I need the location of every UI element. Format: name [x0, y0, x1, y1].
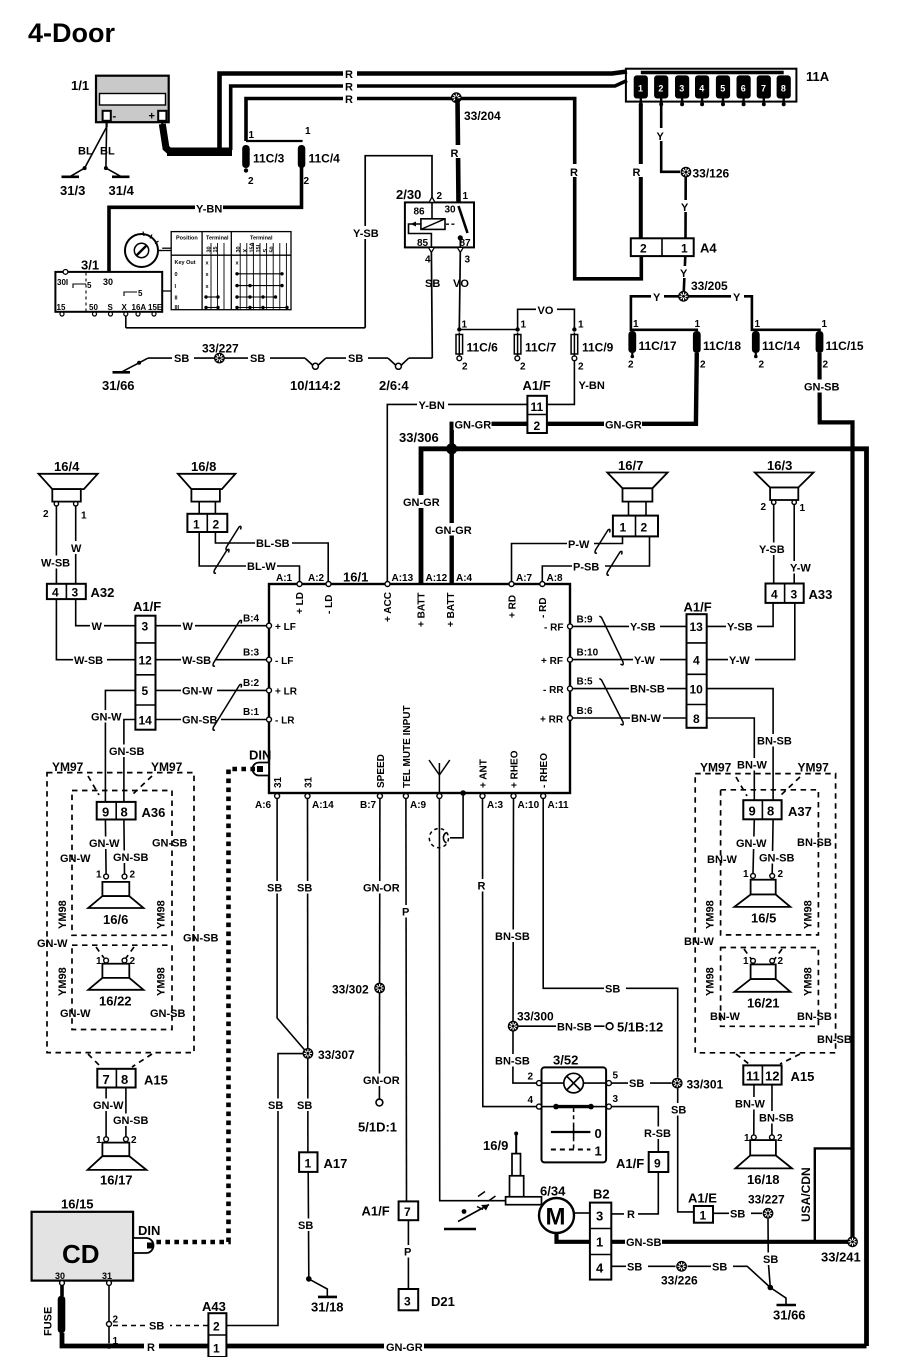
ground 31/18 — [306, 1276, 344, 1314]
svg-text:16/21: 16/21 — [747, 996, 780, 1011]
splice slash B:4/B:3 — [213, 620, 242, 666]
svg-text:SB: SB — [250, 353, 265, 365]
svg-text:16/3: 16/3 — [767, 458, 792, 473]
antenna symbol inside radio — [429, 760, 450, 793]
wire SB radio A:14 down through 33/307 to A17 — [296, 799, 318, 1153]
wire BN-SB radio A:10 to 33/300 and 3/52 pin2 — [494, 799, 537, 1084]
terminal 2/6:4 — [379, 358, 409, 393]
svg-text:SB: SB — [149, 1321, 164, 1333]
connector D21 pin 3 — [399, 1289, 455, 1310]
svg-text:+ BATT: + BATT — [417, 592, 428, 627]
svg-text:13: 13 — [690, 620, 704, 634]
connector A15 left (7 8) — [97, 1069, 168, 1088]
wire Y-W radio B:10 to A1/F 4 — [573, 654, 687, 668]
speaker 16/7 — [607, 458, 667, 516]
svg-text:P-SB: P-SB — [573, 562, 599, 574]
svg-text:B:9: B:9 — [577, 615, 594, 626]
junction 33/300 — [508, 1010, 554, 1032]
svg-text:BN-W: BN-W — [710, 1011, 741, 1023]
wire antenna lead radio to antenna base — [439, 799, 505, 1201]
svg-text:BN-SB: BN-SB — [495, 931, 530, 943]
svg-text:Terminal: Terminal — [206, 236, 229, 242]
svg-text:GN-GR: GN-GR — [386, 1342, 423, 1354]
fuse 11C/6 — [456, 320, 498, 373]
funnel dashes to A15 right — [736, 1054, 800, 1064]
connector A1/E pin 1 — [688, 1191, 717, 1223]
fuse 5 (11A) — [716, 76, 729, 106]
svg-text:1: 1 — [213, 1342, 220, 1356]
svg-text:11C/7: 11C/7 — [525, 341, 557, 355]
svg-text:R: R — [345, 82, 353, 94]
speaker 16/8 — [178, 459, 236, 514]
wire Y-BN fuse 11C/4 to ignition switch 30 — [109, 167, 302, 272]
speaker 16/17 — [88, 1135, 147, 1188]
svg-text:1: 1 — [578, 320, 584, 331]
svg-text:SB: SB — [730, 1209, 745, 1221]
wire R-SB 3/52 pin3 to A1/F 9 — [611, 1107, 675, 1152]
wire BL battery negative to grounds — [85, 127, 107, 168]
svg-text:SB: SB — [174, 353, 189, 365]
svg-text:86: 86 — [414, 207, 426, 218]
svg-text:GN-W: GN-W — [93, 1100, 124, 1112]
wire VO bridge 11C/7 to 11C/9 — [518, 303, 575, 330]
svg-text:GN-SB: GN-SB — [183, 933, 219, 945]
svg-text:1: 1 — [96, 956, 102, 967]
svg-text:2: 2 — [534, 419, 541, 433]
ground 31/3 — [60, 166, 87, 198]
svg-text:5: 5 — [142, 684, 149, 698]
svg-text:2: 2 — [658, 84, 663, 94]
svg-text:B:10: B:10 — [577, 648, 599, 659]
svg-text:11C/15: 11C/15 — [826, 339, 864, 353]
svg-text:8: 8 — [767, 804, 774, 819]
junction 33/204 — [451, 92, 501, 123]
svg-text:SB: SB — [605, 984, 620, 996]
svg-text:33/227: 33/227 — [202, 342, 239, 356]
svg-text:SPEED: SPEED — [376, 754, 387, 788]
label R bottom rail — [144, 1340, 159, 1355]
svg-text:2: 2 — [130, 870, 136, 881]
wire Y-SB relay pin2 to ignition switch X terminal — [352, 156, 432, 328]
wire X terminal to Y-SB riser — [125, 316, 127, 328]
svg-text:SB: SB — [763, 1254, 778, 1266]
svg-text:VO: VO — [453, 278, 469, 290]
svg-text:BL: BL — [78, 146, 93, 158]
svg-text:1: 1 — [96, 870, 102, 881]
svg-text:R: R — [633, 167, 641, 179]
wire W A32 to A1/F pin3 — [76, 599, 136, 633]
svg-text:DIN: DIN — [138, 1223, 160, 1238]
svg-text:A:3: A:3 — [487, 800, 504, 811]
svg-text:85: 85 — [417, 238, 429, 249]
svg-text:X: X — [243, 249, 249, 253]
svg-text:16/7: 16/7 — [618, 458, 643, 473]
svg-text:A1/E: A1/E — [688, 1191, 717, 1206]
svg-text:10/114:2: 10/114:2 — [290, 378, 341, 393]
harness box YM97 right — [695, 774, 835, 1053]
svg-text:A33: A33 — [809, 587, 833, 602]
harness box YM98 left upper — [72, 776, 172, 935]
wire R2 (battery to fuse box 11A) — [231, 80, 627, 151]
junction 33/307 — [303, 1048, 356, 1062]
svg-text:11C/9: 11C/9 — [582, 341, 614, 355]
svg-text:YM98: YM98 — [156, 967, 168, 996]
svg-text:16/9: 16/9 — [483, 1138, 508, 1153]
connector A32 — [47, 584, 114, 600]
svg-text:1: 1 — [800, 503, 806, 514]
svg-text:9: 9 — [749, 804, 756, 819]
wire P A1/F 7 to D21 — [401, 1220, 416, 1289]
svg-text:GN-SB: GN-SB — [804, 382, 840, 394]
svg-text:16/5: 16/5 — [751, 911, 776, 926]
svg-text:2: 2 — [248, 176, 254, 187]
svg-text:A37: A37 — [788, 804, 812, 819]
speaker 16/6 — [88, 870, 143, 928]
svg-text:YM97: YM97 — [52, 760, 84, 774]
antenna 16/9 — [483, 1132, 542, 1205]
connector A4 — [631, 238, 718, 256]
fuse 11C/15 — [816, 331, 864, 371]
svg-text:-: - — [113, 111, 117, 123]
wire Y-W A1/F 4 to A33 pin3 — [707, 603, 795, 667]
svg-text:7: 7 — [404, 1205, 411, 1219]
svg-text:- LF: - LF — [275, 656, 293, 667]
svg-text:33/204: 33/204 — [464, 109, 501, 123]
svg-text:2: 2 — [528, 1072, 534, 1083]
svg-text:B:2: B:2 — [243, 678, 260, 689]
fuse 7 (11A) — [757, 76, 770, 106]
splice slash B:9/B:10 — [600, 616, 623, 665]
splice slash P-W — [595, 529, 610, 553]
wire W-SB 16/4 pin2 to A32 pin4 — [40, 506, 73, 584]
svg-text:GN-SB: GN-SB — [150, 1008, 186, 1020]
radio top pins — [276, 573, 563, 627]
svg-text:2: 2 — [304, 176, 310, 187]
svg-text:W-SB: W-SB — [182, 655, 211, 667]
svg-text:SB: SB — [268, 1100, 283, 1112]
svg-text:3: 3 — [679, 84, 684, 94]
svg-text:7: 7 — [103, 1072, 110, 1087]
wire SB radio A:11 to 33/301 — [543, 799, 678, 1078]
svg-text:Y-W: Y-W — [790, 563, 811, 575]
wire battery positive cable — [162, 124, 232, 152]
svg-text:GN-W: GN-W — [182, 686, 213, 698]
svg-text:BN-SB: BN-SB — [759, 1113, 794, 1125]
svg-text:16/4: 16/4 — [54, 459, 80, 474]
svg-text:R: R — [478, 881, 486, 893]
motor 6/34 — [539, 1184, 574, 1234]
svg-text:+: + — [149, 111, 155, 123]
svg-text:SB: SB — [348, 353, 363, 365]
svg-text:31/66: 31/66 — [102, 378, 135, 393]
svg-text:W-SB: W-SB — [74, 655, 103, 667]
svg-text:A:1: A:1 — [276, 573, 293, 584]
svg-text:+ BATT: + BATT — [446, 592, 457, 627]
svg-text:Y-SB: Y-SB — [353, 228, 379, 240]
svg-text:4: 4 — [425, 255, 431, 266]
junction 33/227 (lower right) — [748, 1193, 785, 1219]
svg-text:A:4: A:4 — [456, 573, 473, 584]
svg-text:3/1: 3/1 — [81, 258, 99, 273]
svg-text:1: 1 — [596, 1235, 603, 1250]
svg-text:2: 2 — [641, 521, 648, 535]
wire W 16/4 pin1 to A32 pin3 — [70, 506, 83, 584]
svg-text:GN-GR: GN-GR — [605, 420, 642, 432]
svg-text:D21: D21 — [431, 1294, 455, 1309]
wire BN-SB A1/F 10 down to A37 pin8 — [707, 689, 794, 801]
svg-text:16A: 16A — [132, 303, 147, 312]
speaker 16/4 — [39, 459, 98, 522]
svg-text:1: 1 — [681, 242, 688, 256]
svg-text:A:6: A:6 — [255, 800, 272, 811]
svg-text:5: 5 — [720, 84, 725, 94]
svg-text:GN-W: GN-W — [60, 853, 91, 865]
speaker 16/21 — [734, 956, 790, 1011]
wire SB chain continues — [326, 351, 388, 366]
speaker 16/18 — [735, 1133, 792, 1187]
svg-text:33/306: 33/306 — [399, 430, 439, 445]
wire SB B2 pin4 to 33/226 — [611, 1260, 675, 1274]
wire Y A4 pin1 to junction 33/205 — [679, 256, 691, 293]
wire Y-BN 11C/9 to A1/F pin 11 — [547, 361, 605, 405]
svg-text:31: 31 — [102, 1271, 112, 1281]
svg-text:4: 4 — [52, 586, 59, 600]
svg-text:1: 1 — [700, 1209, 707, 1223]
wire GN-W A37 pin9 to 16/5 pin1 — [735, 819, 767, 873]
svg-text:2: 2 — [213, 518, 220, 532]
svg-text:GN-W: GN-W — [89, 838, 120, 850]
harness box YM97 left — [47, 773, 194, 1053]
svg-text:R-SB: R-SB — [644, 1128, 671, 1140]
wire BL-SB 16/8 pin2 to radio A:2 — [215, 532, 328, 582]
wire SB 33/226 to ground point — [688, 1260, 771, 1288]
svg-text:0: 0 — [175, 272, 178, 278]
svg-text:3: 3 — [613, 1094, 619, 1105]
svg-text:1/1: 1/1 — [71, 78, 89, 93]
svg-text:- LR: - LR — [275, 716, 295, 727]
svg-text:16/18: 16/18 — [747, 1172, 780, 1187]
svg-text:B:3: B:3 — [243, 648, 260, 659]
svg-text:GN-SB: GN-SB — [109, 746, 145, 758]
svg-text:- RHEO: - RHEO — [539, 753, 550, 788]
junction 33/205 — [678, 279, 728, 302]
svg-text:+ ACC: + ACC — [383, 592, 394, 622]
ground 31/66 (lower right) — [768, 1285, 806, 1323]
junction 33/302 — [332, 983, 385, 997]
svg-text:SB: SB — [297, 1100, 312, 1112]
wire GN-W A15 to 16/17 pin1 — [92, 1088, 124, 1137]
svg-text:FUSE: FUSE — [43, 1307, 55, 1336]
svg-text:BN-W: BN-W — [707, 854, 738, 866]
wire SB 33/227 down to ground 31/66 — [762, 1219, 784, 1288]
wire GN-SB 11C/15 down right rail to 33/241 — [803, 353, 853, 1242]
svg-text:Y-W: Y-W — [634, 655, 655, 667]
DIN connector on radio — [249, 748, 271, 776]
wire Y fuse2 to junction 33/126 — [655, 104, 680, 172]
svg-text:P: P — [402, 907, 409, 919]
svg-text:S: S — [108, 303, 114, 312]
svg-text:- LD: - LD — [324, 595, 335, 614]
wire BL-W 16/8 pin1 to radio A:1 — [199, 532, 299, 582]
wire W-SB A1/F pin12 to radio B:3 — [156, 654, 267, 668]
svg-text:30: 30 — [103, 277, 113, 287]
svg-text:A15: A15 — [791, 1069, 815, 1084]
wire Y-SB radio B:9 to A1/F 13 — [573, 620, 687, 634]
wire BN-W radio B:6 to A1/F 8 — [573, 712, 687, 726]
svg-text:M: M — [546, 1204, 566, 1231]
svg-text:Y-SB: Y-SB — [727, 622, 753, 634]
svg-text:GN-W: GN-W — [60, 1008, 91, 1020]
svg-text:3: 3 — [72, 586, 79, 600]
svg-text:YM98: YM98 — [156, 900, 168, 929]
junction 33/126 — [681, 167, 730, 181]
svg-text:GN-W: GN-W — [91, 712, 122, 724]
svg-text:1: 1 — [96, 1135, 102, 1146]
svg-text:4: 4 — [771, 588, 778, 602]
wire Y right branch to fuses 11C/14 11C/15 — [689, 290, 828, 331]
wire R radio A:3 down to 3/52 pin4 — [475, 799, 537, 1107]
svg-text:II: II — [175, 296, 179, 302]
svg-text:BL-SB: BL-SB — [256, 538, 290, 550]
antenna trim dashes — [477, 1192, 496, 1210]
svg-text:A1/F: A1/F — [133, 599, 161, 614]
wire GN-SB A37 pin8 to 16/5 pin2 — [758, 819, 795, 873]
svg-text:15A: 15A — [250, 242, 256, 252]
svg-text:CD: CD — [62, 1239, 100, 1269]
svg-text:2: 2 — [761, 502, 767, 513]
wire GN-SB A1/F pin14 down to A36 pin8 — [108, 720, 145, 802]
variant box USA/CDN — [799, 1148, 853, 1241]
fuse (CD supply) — [43, 1281, 66, 1336]
svg-text:15E: 15E — [148, 303, 163, 312]
svg-text:33/307: 33/307 — [318, 1048, 355, 1062]
wire motor to B2 pin3 row — [574, 1212, 590, 1214]
svg-text:YM97: YM97 — [700, 761, 732, 775]
svg-text:2: 2 — [628, 360, 634, 371]
svg-text:5/1D:1: 5/1D:1 — [358, 1120, 397, 1135]
svg-text:YM98: YM98 — [57, 967, 69, 996]
svg-text:31/4: 31/4 — [109, 183, 135, 198]
svg-text:11: 11 — [531, 400, 544, 414]
svg-text:BN-SB: BN-SB — [757, 736, 792, 748]
svg-text:GN-OR: GN-OR — [363, 1075, 400, 1087]
harness box YM98 right upper — [721, 777, 819, 935]
svg-text:GN-GR: GN-GR — [403, 497, 440, 509]
svg-text:YM98: YM98 — [57, 900, 69, 929]
radio unit 16/1 — [269, 570, 570, 794]
svg-text:11C/3: 11C/3 — [253, 152, 285, 166]
wire Y 33/126 to A4 pin 1 — [680, 177, 692, 238]
svg-text:2: 2 — [43, 509, 49, 520]
CD changer 16/15 — [32, 1197, 134, 1282]
svg-text:33/226: 33/226 — [661, 1274, 698, 1288]
svg-text:A36: A36 — [142, 805, 166, 820]
junction 33/227 (ground chain) — [202, 342, 239, 364]
svg-text:B:5: B:5 — [577, 677, 594, 688]
coax shield stub and dashed screen circle — [429, 793, 463, 848]
svg-text:10: 10 — [690, 683, 704, 697]
svg-text:GN-W: GN-W — [736, 838, 767, 850]
svg-text:2/6:4: 2/6:4 — [379, 378, 409, 393]
wire GN-W A36 pin9 to speaker 16/6 pin1 — [88, 820, 120, 875]
svg-text:BN-W: BN-W — [684, 936, 715, 948]
connector A43 — [202, 1299, 226, 1357]
svg-text:3/52: 3/52 — [553, 1053, 578, 1068]
wire Y-W 16/3 pin1 to A33 pin3 — [789, 505, 816, 584]
svg-text:R: R — [451, 148, 459, 160]
speaker 16/5 — [734, 869, 790, 926]
svg-text:A1/F: A1/F — [523, 378, 551, 393]
svg-text:B:1: B:1 — [243, 707, 260, 718]
splice slash BL-W — [214, 549, 229, 573]
terminal 5/1D:1 — [358, 1099, 397, 1134]
fuse 11C/14 — [752, 331, 800, 371]
ignition position table — [171, 232, 291, 311]
svg-text:BN-SB: BN-SB — [557, 1022, 592, 1034]
svg-text:SB: SB — [627, 1262, 642, 1274]
funnel dashes to A15 left — [88, 1054, 152, 1067]
connector A1/F pins 13 4 10 8 — [684, 600, 712, 728]
fuse 11C/17 — [628, 331, 677, 371]
wire R fuse1 to connector A4 pin 2 — [631, 104, 644, 238]
wire BN-W A1/F 8 down to A37 pin9 — [707, 718, 769, 800]
svg-text:Y-BN: Y-BN — [579, 380, 605, 392]
wire GN-GR 11C/18 to A1/F pin 2 — [547, 353, 697, 432]
svg-text:BN-SB: BN-SB — [630, 684, 665, 696]
svg-text:W: W — [92, 621, 103, 633]
svg-text:4: 4 — [528, 1095, 534, 1106]
wire Y-BN to A1/F pin 11 from radio ACC riser — [387, 398, 527, 584]
svg-text:BN-SB: BN-SB — [797, 1011, 832, 1023]
svg-text:50: 50 — [89, 303, 98, 312]
wire VO relay pin3 to fuse 11C/6 — [453, 253, 469, 330]
wire BN-SB 33/300 to terminal 5/1B:12 — [519, 1020, 605, 1034]
wire GN-SB A36 pin8 to speaker 16/6 pin2 — [112, 820, 149, 875]
svg-text:33/227: 33/227 — [748, 1193, 785, 1207]
svg-text:14: 14 — [139, 714, 153, 728]
radio bottom pins — [255, 705, 569, 811]
relay 2/30 — [396, 187, 474, 266]
svg-text:B2: B2 — [593, 1187, 610, 1202]
wire SB chain to relay pin 4 — [409, 357, 433, 359]
svg-text:2: 2 — [700, 360, 706, 371]
junction 33/241 — [821, 1236, 861, 1264]
svg-text:4-Door: 4-Door — [28, 18, 115, 48]
svg-text:8: 8 — [781, 84, 786, 94]
connector A1/F pin 7 — [362, 1201, 419, 1220]
connector B2 — [590, 1187, 611, 1280]
svg-text:Y-W: Y-W — [729, 655, 750, 667]
connector A1/F pins 11 and 2 — [523, 378, 551, 433]
svg-text:6: 6 — [741, 84, 746, 94]
svg-text:Position: Position — [176, 236, 198, 242]
svg-text:A32: A32 — [91, 585, 115, 600]
svg-text:15I: 15I — [256, 244, 262, 252]
connector A37 — [743, 800, 812, 819]
svg-text:31/18: 31/18 — [311, 1300, 344, 1315]
svg-text:2: 2 — [759, 360, 765, 371]
svg-text:Y: Y — [680, 268, 688, 280]
svg-text:P-W: P-W — [568, 539, 590, 551]
svg-text:33/302: 33/302 — [332, 983, 369, 997]
wire SB A1/E to 33/227 — [713, 1207, 762, 1221]
svg-text:30: 30 — [207, 246, 213, 252]
svg-text:+ LD: + LD — [295, 592, 306, 614]
svg-text:1: 1 — [822, 319, 828, 330]
ignition key symbol — [125, 232, 162, 268]
svg-text:W: W — [71, 543, 82, 555]
svg-text:0: 0 — [595, 1126, 602, 1141]
